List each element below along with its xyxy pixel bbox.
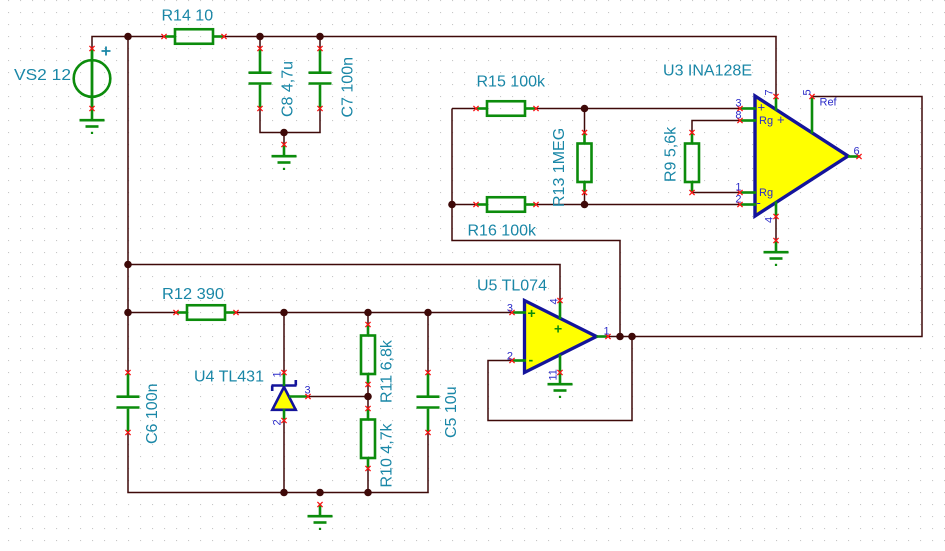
svg-text:2: 2 bbox=[507, 351, 513, 363]
node bottom rail R10 bbox=[364, 489, 372, 497]
node R11 top bbox=[364, 309, 372, 317]
pin 4 stub U3 bbox=[775, 202, 778, 217]
wire R11 top stub bbox=[367, 313, 369, 325]
svg-text:4: 4 bbox=[549, 298, 561, 304]
wire top rail from R14 to U3 pin 7 bbox=[224, 37, 776, 97]
pin X R13 bottom bbox=[582, 190, 587, 195]
svg-text:1: 1 bbox=[272, 371, 284, 377]
wire bottom ground rail C6 to C5 bbox=[128, 433, 428, 493]
pin X U5 pin4 bbox=[557, 298, 562, 303]
wire U4 anode top bbox=[283, 313, 285, 373]
pin X R15 left bbox=[473, 106, 478, 111]
pin X ground mid bbox=[281, 142, 286, 147]
shunt reference U4 TL431 body bbox=[272, 380, 297, 410]
ground below VS2 bbox=[80, 109, 105, 135]
svg-text:Ref: Ref bbox=[820, 97, 838, 109]
wire U3 pin 8 to R9 top bbox=[692, 121, 740, 133]
ground bottom rail bbox=[308, 505, 333, 531]
svg-text:+: + bbox=[554, 321, 562, 337]
svg-text:C5 10u: C5 10u bbox=[443, 386, 460, 438]
pin X R9 top bbox=[689, 130, 694, 135]
svg-text:+: + bbox=[528, 305, 536, 321]
svg-text:C8 4,7u: C8 4,7u bbox=[280, 61, 297, 117]
pin 3 stub U4 bbox=[289, 395, 308, 398]
svg-text:7: 7 bbox=[764, 89, 776, 95]
svg-text:R14 10: R14 10 bbox=[162, 8, 214, 25]
wire R10 bottom bbox=[367, 469, 369, 493]
resistor R11 bbox=[361, 325, 375, 385]
pin X U5 pin11 bbox=[557, 370, 562, 375]
resistor R13 bbox=[578, 133, 592, 193]
wire R16 left lead bbox=[452, 204, 476, 206]
capacitor C8 bbox=[249, 50, 272, 108]
wire vertical bus x=128 from top rail down to C6 bbox=[127, 37, 129, 373]
pin 3 stub U3 bbox=[740, 107, 756, 110]
pin X U4 pin1 bbox=[281, 370, 286, 375]
wire left loop R15/R16 down to U5 output node bbox=[452, 109, 620, 337]
node top rail / x128 bus bbox=[124, 33, 132, 41]
node C8/C7 ground bbox=[280, 129, 288, 137]
voltage source VS2 bbox=[74, 47, 111, 109]
wire R13 top bbox=[584, 109, 586, 133]
resistor R9 bbox=[685, 133, 699, 193]
pin 4 stub U5 bbox=[559, 301, 562, 320]
pin X U5 pin3 bbox=[509, 310, 514, 315]
pin X U3 pin5 bbox=[809, 94, 814, 99]
resistor R16 bbox=[476, 197, 536, 212]
svg-text:U4 TL431: U4 TL431 bbox=[194, 369, 264, 386]
svg-text:+: + bbox=[777, 112, 785, 127]
pin 2 stem U4 bbox=[283, 409, 286, 421]
svg-text:8: 8 bbox=[735, 110, 741, 122]
node U4 top bbox=[280, 309, 288, 317]
node +12 rail tap bbox=[124, 261, 132, 269]
pin X U3 pin2 bbox=[737, 202, 742, 207]
wire U4 cathode bottom bbox=[283, 421, 285, 493]
svg-text:11: 11 bbox=[548, 369, 560, 380]
pin 7 stub U3 bbox=[775, 97, 778, 111]
node C5 top bbox=[424, 309, 432, 317]
wire top rail from VS2 to R14 bbox=[92, 37, 164, 49]
pin X R15 right bbox=[533, 106, 538, 111]
svg-text:R12 390: R12 390 bbox=[162, 286, 224, 303]
pin X U4 pin2 bbox=[281, 418, 286, 423]
svg-text:3: 3 bbox=[735, 98, 741, 110]
pin X R16 right bbox=[533, 202, 538, 207]
pin X U4 pin3 bbox=[305, 394, 310, 399]
pin 1 stem U4 bbox=[283, 373, 286, 387]
ground below C8/C7 bbox=[272, 145, 297, 171]
pin X C6 bottom bbox=[125, 430, 130, 435]
ground U3 pin4 bbox=[764, 241, 789, 267]
pin X U5 pin1 bbox=[605, 334, 610, 339]
pin 11 stub U5 bbox=[559, 355, 562, 373]
wire R13 bottom bbox=[584, 193, 586, 205]
svg-text:6: 6 bbox=[854, 146, 860, 158]
pin 6 stub U3 bbox=[848, 155, 860, 158]
pin X C7 top bbox=[317, 46, 322, 51]
wire C5 top bbox=[427, 313, 429, 373]
wire R12 right to U5 pin 3 bbox=[236, 312, 512, 314]
wire R16 right to U3 pin 2 bbox=[536, 204, 740, 206]
pin 8 stub U3 bbox=[740, 119, 756, 122]
wire C7 top stub bbox=[319, 37, 321, 49]
wire ground stub below C8/C7 bbox=[283, 133, 285, 145]
capacitor C6 bbox=[117, 374, 140, 432]
pin X R10 top bbox=[365, 406, 370, 411]
svg-text:R15 100k: R15 100k bbox=[477, 74, 546, 91]
resistor R10 bbox=[361, 409, 375, 469]
node U5 out / feedback bbox=[628, 333, 636, 341]
pin 5 stub U3 bbox=[811, 97, 814, 134]
pin X R11 top bbox=[365, 322, 370, 327]
svg-text:C7 100n: C7 100n bbox=[340, 57, 357, 118]
pin X C6 top bbox=[125, 370, 130, 375]
wire R9 bottom to U3 pin 1 bbox=[692, 192, 740, 194]
wire U5 output to U3 Ref bbox=[608, 97, 922, 337]
wire R11 bottom to R10 top bbox=[367, 385, 369, 409]
svg-text:5: 5 bbox=[802, 89, 814, 95]
pin X R14 right bbox=[221, 34, 226, 39]
node U5 out / R16 loop bbox=[616, 333, 624, 341]
node R15/R13 bbox=[581, 105, 589, 113]
node R15/R16 left bbox=[448, 201, 456, 209]
pin X C8 bottom bbox=[257, 106, 262, 111]
node C8 top bbox=[256, 33, 264, 41]
pin 1 stub U3 bbox=[740, 191, 756, 194]
pin X U3 pin8 bbox=[737, 118, 742, 123]
svg-text:VS2 12: VS2 12 bbox=[14, 67, 71, 84]
svg-text:R13 1MEG: R13 1MEG bbox=[551, 128, 568, 207]
pin X R14 left bbox=[161, 34, 166, 39]
node R16/R13 bbox=[581, 201, 589, 209]
svg-text:-: - bbox=[757, 195, 761, 210]
pin 2 stub U3 bbox=[740, 203, 756, 206]
pin X ground bottom bbox=[317, 502, 322, 507]
resistor R15 bbox=[476, 101, 536, 116]
pin X VS2 top bbox=[89, 46, 94, 51]
pin X U5 pin2 bbox=[509, 358, 514, 363]
pin X R9 bottom bbox=[689, 190, 694, 195]
svg-text:+: + bbox=[758, 100, 766, 115]
svg-text:3: 3 bbox=[305, 385, 311, 397]
svg-text:U5 TL074: U5 TL074 bbox=[477, 278, 547, 295]
pin X VS2 bottom bbox=[89, 106, 94, 111]
wire R15 right to U3 pin 3 bbox=[536, 108, 740, 110]
pin 3 stub U5 bbox=[512, 311, 526, 314]
wire C8/C7 bottom to ground node bbox=[260, 109, 320, 133]
pin X R12 right bbox=[233, 310, 238, 315]
capacitor C7 bbox=[309, 50, 332, 108]
svg-text:R16 100k: R16 100k bbox=[468, 223, 537, 240]
pin X C5 top bbox=[425, 370, 430, 375]
wire R12 left lead bbox=[128, 312, 176, 314]
svg-text:Rg: Rg bbox=[759, 115, 773, 127]
wire U5 feedback pin 2 loop bbox=[488, 337, 632, 421]
svg-text:R10 4,7k: R10 4,7k bbox=[379, 422, 396, 487]
pin X C8 top bbox=[257, 46, 262, 51]
svg-text:3: 3 bbox=[507, 303, 513, 315]
svg-text:1: 1 bbox=[735, 182, 741, 194]
svg-text:R9 5,6k: R9 5,6k bbox=[663, 126, 680, 182]
wire U4 pin 3 to R11/R10 node bbox=[308, 396, 368, 398]
pin X R11 bottom bbox=[365, 382, 370, 387]
pin X R13 top bbox=[582, 130, 587, 135]
pin X R10 bottom bbox=[365, 466, 370, 471]
node bottom rail U4 bbox=[280, 489, 288, 497]
svg-text:R11 6,8k: R11 6,8k bbox=[379, 339, 396, 403]
resistor R12 bbox=[176, 305, 236, 320]
svg-text:1: 1 bbox=[604, 326, 610, 338]
wire C8 top stub bbox=[259, 37, 261, 49]
node R12/C6 bbox=[124, 309, 132, 317]
capacitor C5 bbox=[417, 374, 440, 432]
svg-text:C6 100n: C6 100n bbox=[144, 384, 161, 445]
op-amp U3 INA128E body bbox=[755, 96, 848, 216]
pin X U3 pin7 bbox=[773, 94, 778, 99]
svg-text:2: 2 bbox=[272, 419, 284, 425]
svg-text:Rg: Rg bbox=[759, 187, 773, 199]
op-amp U5 TL074 body bbox=[525, 301, 597, 373]
ground U5 pin11 bbox=[548, 373, 573, 399]
pin X R12 left bbox=[173, 310, 178, 315]
svg-text:U3 INA128E: U3 INA128E bbox=[663, 62, 752, 79]
node bottom rail ground bbox=[316, 489, 324, 497]
pin X U3 ground bbox=[773, 238, 778, 243]
svg-text:-: - bbox=[529, 352, 534, 368]
pin X U3 pin4 bbox=[773, 214, 778, 219]
pin X R16 left bbox=[473, 202, 478, 207]
pin X U3 pin1 bbox=[737, 190, 742, 195]
node C7 top bbox=[316, 33, 324, 41]
wire +12V rail to U5 pin 4 bbox=[128, 265, 560, 301]
svg-text:4: 4 bbox=[764, 217, 776, 223]
pin X C5 bottom bbox=[425, 430, 430, 435]
pin 2 stub U5 bbox=[512, 359, 526, 362]
pin X C7 bottom bbox=[317, 106, 322, 111]
pin X U3 pin6 bbox=[856, 154, 861, 159]
pin X U3 pin3 bbox=[737, 106, 742, 111]
svg-text:2: 2 bbox=[735, 194, 741, 206]
resistor R14 bbox=[164, 29, 224, 44]
wire R15 left lead bbox=[452, 108, 476, 110]
wire U3 pin 4 to ground bbox=[775, 217, 777, 241]
node U4 ref / R11 R10 bbox=[364, 393, 372, 401]
pin 1 stub U5 bbox=[597, 335, 609, 338]
